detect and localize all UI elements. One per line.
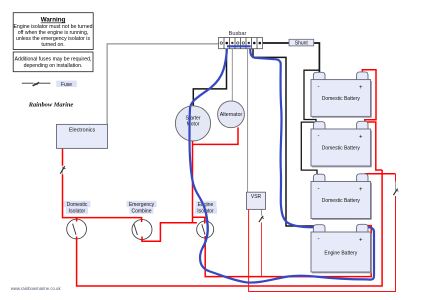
svg-text:depending on installation.: depending on installation. [24,63,83,69]
svg-text:Electronics: Electronics [69,127,96,133]
svg-text:www.rainbowmarine.co.uk: www.rainbowmarine.co.uk [11,286,62,291]
svg-text:Additional fuses may be requir: Additional fuses may be required, [15,57,92,63]
svg-text:Domestic: Domestic [67,202,88,208]
svg-text:Rainbow Marine: Rainbow Marine [28,102,74,109]
svg-text:-: - [318,236,320,242]
svg-text:Combine: Combine [131,209,151,215]
svg-text:Shunt: Shunt [295,41,309,47]
svg-text:Domestic Battery: Domestic Battery [322,96,361,102]
svg-text:VSR: VSR [251,194,262,200]
svg-text:Busbar: Busbar [229,31,247,37]
svg-text:Emergency: Emergency [129,202,155,208]
svg-text:Domestic Battery: Domestic Battery [322,146,361,152]
svg-text:-: - [318,186,320,192]
svg-text:Starter: Starter [185,116,200,122]
svg-text:Alternator: Alternator [220,112,243,118]
svg-text:+: + [359,237,363,243]
svg-text:turned on.: turned on. [41,42,64,48]
svg-text:-: - [318,84,320,90]
svg-text:Domestic Battery: Domestic Battery [322,198,361,204]
svg-text:-: - [318,133,320,139]
svg-text:Engine Battery: Engine Battery [324,251,357,257]
svg-text:Warning: Warning [41,17,66,24]
svg-text:Fuse: Fuse [61,82,72,88]
svg-text:+: + [359,134,363,140]
svg-text:+: + [359,85,363,91]
svg-text:Engine: Engine [198,202,214,208]
svg-text:+: + [359,187,363,193]
svg-text:Isolator: Isolator [69,209,86,215]
